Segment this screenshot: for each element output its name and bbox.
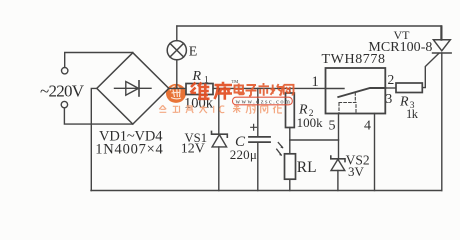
svg-text:TM: TM — [232, 79, 239, 84]
lamp E circle — [167, 41, 186, 60]
wire lamp drop from top rail — [176, 26, 178, 41]
wire pin4 to bottom rail — [374, 114, 376, 191]
IC dashed control box — [339, 103, 356, 114]
wire VS1 column — [218, 88, 220, 190]
wire pin5 to VS2 — [338, 114, 340, 159]
wire capacitor column upper — [257, 88, 259, 136]
wire R2 to RL — [289, 128, 291, 154]
IC switch lever — [338, 88, 385, 97]
wire RL to bottom rail — [289, 179, 291, 190]
wire capacitor column lower — [257, 143, 259, 191]
wire R2/RL junction to pin5 — [290, 139, 339, 141]
watermark big char WEI — [191, 83, 210, 99]
terminal lower — [61, 101, 67, 107]
svg-text:3: 3 — [386, 91, 393, 106]
bridge inner diode lead — [115, 87, 152, 89]
terminal upper — [61, 68, 67, 74]
watermark logo disc — [166, 84, 186, 103]
lamp E cross spokes — [170, 43, 184, 57]
svg-text:5: 5 — [329, 118, 336, 133]
zener VS1 triangle — [212, 135, 227, 147]
wire R2 top stub — [289, 88, 291, 93]
svg-text:2: 2 — [388, 72, 395, 87]
resistor R1 body — [186, 84, 213, 95]
zener VS2 cathode bar with ticks — [331, 156, 345, 162]
photoresistor RL light arrows — [277, 143, 283, 155]
resistor RL body (photoresistor) — [285, 154, 296, 179]
watermark big char KU — [215, 82, 233, 100]
wire upper AC terminal to bridge top — [65, 53, 133, 68]
watermark www.dzsc.com box — [233, 97, 293, 105]
bridge rectifier VD1~VD4 diamond — [97, 53, 169, 124]
thyristor VT triangle — [433, 40, 450, 51]
wire left DC minus vertical — [91, 88, 97, 190]
svg-text:4: 4 — [364, 118, 371, 133]
zener VS1 cathode bar with ticks — [212, 131, 228, 137]
wire right rail cathode to bottom — [441, 53, 443, 191]
wire lamp to main node — [176, 60, 178, 89]
wire right rail anode segment — [440, 26, 442, 40]
bridge inner diode cathode bar — [138, 81, 140, 96]
wire bottom rail — [91, 190, 442, 192]
capacitor C plates — [249, 137, 270, 142]
svg-text:12V: 12V — [181, 141, 205, 156]
zener VS2 triangle — [331, 159, 345, 170]
capacitor plus sign — [251, 124, 257, 130]
svg-text:1: 1 — [312, 74, 319, 90]
wire top rail — [177, 25, 441, 27]
svg-text:220μ: 220μ — [230, 147, 257, 162]
svg-text:R: R — [192, 69, 202, 84]
thyristor VT anode lead — [441, 26, 443, 40]
svg-text:~220V: ~220V — [40, 82, 85, 101]
thyristor VT cathode bar — [433, 52, 452, 54]
watermark bottom line QUAN QIU ZUI DA IC CAI GOU WANG ZHAN — [159, 105, 282, 113]
svg-text:1k: 1k — [406, 107, 419, 121]
svg-text:RL: RL — [297, 159, 317, 176]
wire pin2/3 to R3 — [385, 87, 396, 89]
wire main node rail — [169, 87, 326, 89]
IC pin1 stub — [326, 88, 345, 90]
svg-text:MCR100-8: MCR100-8 — [368, 40, 432, 55]
svg-text:3V: 3V — [348, 164, 365, 179]
resistor R2 body — [286, 93, 295, 128]
wire R3 to gate — [422, 53, 439, 87]
svg-text:100k: 100k — [297, 115, 324, 130]
bridge inner diode triangle — [126, 82, 139, 96]
svg-text:E: E — [189, 45, 198, 60]
svg-text:www.dzsc.com: www.dzsc.com — [236, 98, 292, 105]
IC dashed link — [354, 93, 356, 103]
wire lower AC terminal to bridge bottom — [64, 108, 132, 124]
resistor R3 body — [396, 83, 422, 93]
watermark chars DIAN ZI SHI CHANG WANG — [235, 83, 294, 96]
wire VS2 to bottom rail — [337, 171, 339, 191]
svg-text:1N4007×4: 1N4007×4 — [95, 141, 163, 157]
IC U1 TWH8778 box — [326, 68, 386, 114]
